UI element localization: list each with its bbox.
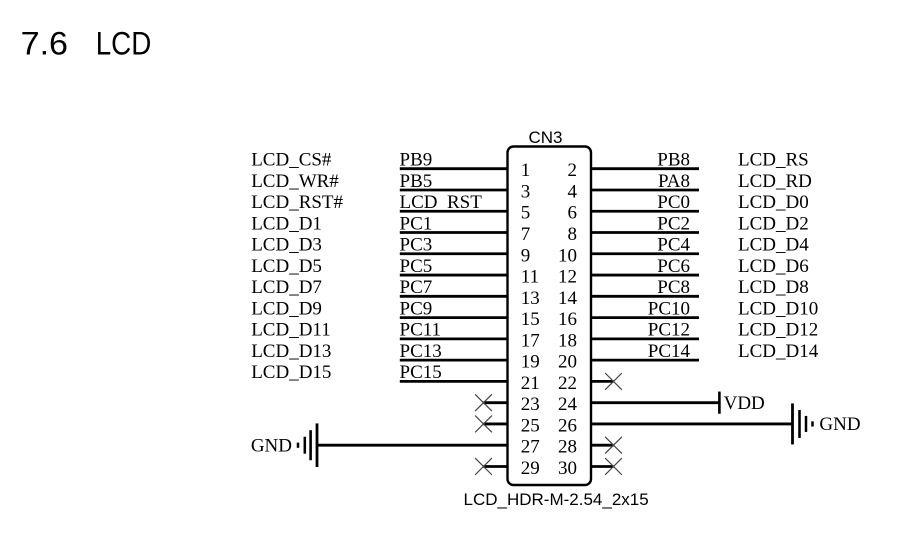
svg-text:LCD_D0: LCD_D0 bbox=[738, 192, 809, 213]
svg-text:LCD_D15: LCD_D15 bbox=[251, 362, 331, 383]
svg-text:PB5: PB5 bbox=[400, 171, 433, 192]
svg-text:6: 6 bbox=[568, 203, 578, 224]
svg-text:3: 3 bbox=[521, 181, 531, 202]
svg-text:PC12: PC12 bbox=[648, 320, 690, 341]
svg-text:PC13: PC13 bbox=[400, 341, 442, 362]
svg-text:PC1: PC1 bbox=[400, 213, 433, 234]
svg-text:16: 16 bbox=[558, 309, 577, 330]
wire pin 6 bbox=[591, 210, 699, 213]
wire pin 16 bbox=[591, 316, 699, 319]
svg-text:PC3: PC3 bbox=[400, 235, 433, 256]
wire pin 18 bbox=[591, 337, 699, 340]
no-connect pin 22 bbox=[605, 373, 622, 390]
svg-text:LCD_D9: LCD_D9 bbox=[251, 298, 322, 319]
wire pin 7 bbox=[400, 231, 508, 234]
svg-text:PC5: PC5 bbox=[400, 256, 433, 277]
wire pin 11 bbox=[400, 274, 508, 277]
svg-text:GND: GND bbox=[251, 436, 292, 457]
svg-text:PC6: PC6 bbox=[657, 256, 690, 277]
svg-text:7: 7 bbox=[521, 224, 531, 245]
wire pin 2 bbox=[591, 167, 699, 170]
wire pin 24 to VDD bbox=[591, 401, 719, 404]
svg-text:18: 18 bbox=[558, 330, 577, 351]
svg-text:14: 14 bbox=[558, 288, 578, 309]
svg-text:25: 25 bbox=[521, 415, 540, 436]
svg-text:VDD: VDD bbox=[724, 393, 765, 414]
power symbol VDD bbox=[719, 392, 764, 415]
wire pin 1 bbox=[400, 167, 508, 170]
no-connect pin 29 bbox=[475, 458, 492, 475]
wire pin 3 bbox=[400, 189, 508, 192]
wire pin 22 stub bbox=[591, 380, 614, 383]
wire pin 30 stub bbox=[591, 465, 614, 468]
svg-text:5: 5 bbox=[521, 203, 531, 224]
svg-text:1: 1 bbox=[521, 160, 531, 181]
wire pin 29 stub bbox=[484, 465, 508, 468]
wire pin 19 bbox=[400, 359, 508, 362]
svg-text:LCD_RS: LCD_RS bbox=[738, 150, 809, 171]
svg-text:PA8: PA8 bbox=[658, 171, 690, 192]
svg-text:11: 11 bbox=[521, 267, 539, 288]
svg-text:PC14: PC14 bbox=[648, 341, 691, 362]
wire pin 8 bbox=[591, 231, 699, 234]
svg-text:PB9: PB9 bbox=[400, 150, 433, 171]
svg-text:LCD_D14: LCD_D14 bbox=[738, 341, 819, 362]
svg-text:LCD_D7: LCD_D7 bbox=[251, 277, 322, 298]
svg-text:LCD_RD: LCD_RD bbox=[738, 171, 812, 192]
svg-text:7.6: 7.6 bbox=[21, 26, 68, 62]
svg-text:LCD: LCD bbox=[96, 27, 152, 62]
svg-text:CN3: CN3 bbox=[529, 128, 563, 147]
svg-text:PC4: PC4 bbox=[657, 235, 690, 256]
wire pin 23 stub bbox=[484, 401, 508, 404]
svg-text:15: 15 bbox=[521, 309, 540, 330]
svg-text:PC15: PC15 bbox=[400, 362, 442, 383]
svg-text:26: 26 bbox=[558, 415, 577, 436]
svg-text:LCD_D5: LCD_D5 bbox=[251, 256, 322, 277]
wire pin 9 bbox=[400, 252, 508, 255]
svg-text:PC11: PC11 bbox=[400, 320, 442, 341]
svg-text:PC10: PC10 bbox=[648, 298, 690, 319]
wire pin 12 bbox=[591, 274, 699, 277]
svg-text:30: 30 bbox=[558, 458, 577, 479]
svg-text:19: 19 bbox=[521, 352, 540, 373]
svg-text:LCD_WR#: LCD_WR# bbox=[251, 171, 339, 192]
connector CN3 body bbox=[508, 147, 592, 486]
ground symbol GND right bbox=[793, 403, 861, 444]
svg-text:PB8: PB8 bbox=[657, 150, 690, 171]
svg-text:PC2: PC2 bbox=[657, 213, 690, 234]
svg-text:8: 8 bbox=[568, 224, 578, 245]
svg-text:21: 21 bbox=[521, 373, 540, 394]
svg-text:22: 22 bbox=[558, 373, 577, 394]
svg-text:2: 2 bbox=[568, 160, 578, 181]
wire pin 14 bbox=[591, 295, 699, 298]
svg-text:PC9: PC9 bbox=[400, 298, 433, 319]
svg-text:GND: GND bbox=[819, 414, 860, 435]
wire pin 4 bbox=[591, 189, 699, 192]
svg-text:23: 23 bbox=[521, 394, 540, 415]
svg-text:9: 9 bbox=[521, 245, 531, 266]
svg-text:24: 24 bbox=[558, 394, 578, 415]
svg-text:PC0: PC0 bbox=[657, 192, 690, 213]
svg-text:PC8: PC8 bbox=[657, 277, 690, 298]
wire pin 5 bbox=[400, 210, 508, 213]
svg-text:LCD_D13: LCD_D13 bbox=[251, 341, 331, 362]
svg-text:LCD_D4: LCD_D4 bbox=[738, 235, 809, 256]
wire pin 20 bbox=[591, 359, 699, 362]
no-connect pin 30 bbox=[605, 458, 622, 475]
svg-text:17: 17 bbox=[521, 330, 540, 351]
svg-text:LCD_D2: LCD_D2 bbox=[738, 213, 809, 234]
svg-text:LCD_HDR-M-2.54_2x15: LCD_HDR-M-2.54_2x15 bbox=[464, 490, 649, 509]
svg-text:LCD_RST#: LCD_RST# bbox=[251, 192, 343, 213]
wire pin 21 bbox=[400, 380, 508, 383]
wire pin 26 to GND bbox=[591, 423, 793, 426]
svg-text:LCD_CS#: LCD_CS# bbox=[251, 150, 332, 171]
no-connect pin 23 bbox=[475, 394, 492, 411]
svg-text:12: 12 bbox=[558, 267, 577, 288]
svg-text:LCD RST: LCD RST bbox=[400, 192, 483, 213]
svg-text:29: 29 bbox=[521, 458, 540, 479]
svg-text:4: 4 bbox=[568, 181, 578, 202]
svg-text:LCD_D8: LCD_D8 bbox=[738, 277, 809, 298]
wire pin 10 bbox=[591, 252, 699, 255]
svg-text:LCD_D10: LCD_D10 bbox=[738, 298, 818, 319]
svg-text:10: 10 bbox=[558, 245, 577, 266]
svg-text:LCD_D1: LCD_D1 bbox=[251, 213, 322, 234]
svg-text:LCD_D6: LCD_D6 bbox=[738, 256, 809, 277]
wire pin 28 stub bbox=[591, 444, 614, 447]
wire pin 27 to GND bbox=[317, 444, 508, 447]
svg-text:28: 28 bbox=[558, 437, 577, 458]
svg-text:27: 27 bbox=[521, 437, 540, 458]
no-connect pin 25 bbox=[475, 416, 492, 433]
svg-text:13: 13 bbox=[521, 288, 540, 309]
svg-text:LCD_D3: LCD_D3 bbox=[251, 235, 322, 256]
wire pin 15 bbox=[400, 316, 508, 319]
wire pin 13 bbox=[400, 295, 508, 298]
svg-text:PC7: PC7 bbox=[400, 277, 433, 298]
svg-text:LCD_D11: LCD_D11 bbox=[251, 320, 331, 341]
wire pin 17 bbox=[400, 337, 508, 340]
no-connect pin 28 bbox=[605, 437, 622, 454]
ground symbol GND left bbox=[251, 423, 317, 467]
wire pin 25 stub bbox=[484, 423, 508, 426]
svg-text:20: 20 bbox=[558, 352, 577, 373]
svg-text:LCD_D12: LCD_D12 bbox=[738, 320, 818, 341]
